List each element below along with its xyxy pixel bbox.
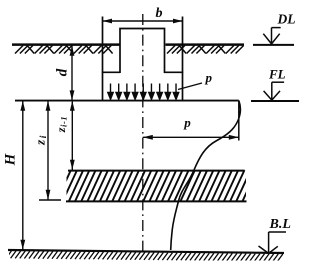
svg-text:p: p [205, 70, 213, 85]
ground line right segment [166, 43, 245, 46]
dimension d [55, 46, 75, 101]
B.L level mark [259, 217, 291, 254]
dimension H [3, 101, 26, 250]
svg-text:FL: FL [268, 67, 286, 82]
stress curve [171, 101, 241, 251]
ground hatch left [15, 46, 113, 54]
ground line left segment [12, 43, 120, 46]
B.L line (bottom) [8, 250, 284, 253]
svg-text:B.L: B.L [269, 217, 291, 232]
bottom hatch [6, 251, 283, 262]
pressure arrows p under base [108, 84, 179, 100]
svg-text:H: H [3, 152, 19, 166]
soil layer band (hatched) [56, 170, 257, 203]
centerline (dash-dot) [142, 14, 144, 252]
column [120, 29, 165, 74]
ground hatch right [167, 46, 244, 54]
dimension b [103, 6, 183, 23]
svg-text:DL: DL [277, 12, 296, 27]
FL level mark [251, 67, 299, 102]
FL line (foundation level, long) [15, 100, 239, 102]
base right edge / right extension line [182, 17, 184, 101]
svg-text:b: b [156, 6, 163, 21]
dimension z_i-1 [54, 101, 75, 170]
svg-text:d: d [55, 68, 71, 76]
base left edge / left extension line [102, 17, 104, 101]
vertical extension at curve top (max p) [238, 101, 240, 141]
svg-text:p: p [183, 115, 191, 130]
right ledge [164, 71, 183, 73]
leader line to p label [178, 83, 202, 90]
left ledge [102, 71, 120, 73]
dimension z_i [33, 101, 62, 200]
dimension p (horizontal) [143, 115, 239, 140]
DL level mark [253, 12, 296, 45]
tick at bottom of z_i [39, 199, 61, 201]
footing outline [102, 17, 183, 101]
